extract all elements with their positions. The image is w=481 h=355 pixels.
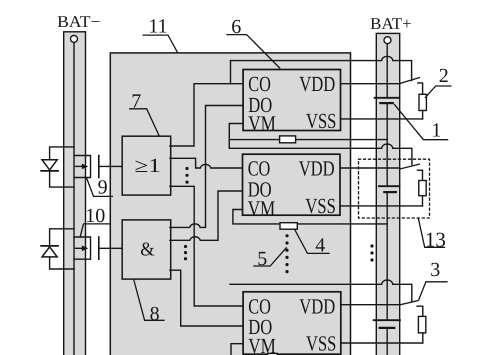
resistor R2 xyxy=(419,181,426,196)
label 3 xyxy=(419,259,447,300)
transistor Q9 gate bar xyxy=(98,156,100,178)
transistor Q9 channel bracket xyxy=(74,156,91,178)
wire CO1 to OR input xyxy=(170,84,243,146)
label 6 xyxy=(227,16,280,68)
transistor Q10 gate bar xyxy=(98,237,100,259)
svg-text:VM: VM xyxy=(248,334,276,355)
wire Q10 gate to box xyxy=(99,247,122,249)
resistor R4b xyxy=(280,223,297,230)
svg-text:1: 1 xyxy=(431,119,441,141)
op-amp U7 OR gate xyxy=(122,136,171,195)
resistor R1 top lead xyxy=(418,83,423,94)
capacitor C2 bottom plate xyxy=(384,191,396,193)
wire VDD1 xyxy=(341,83,400,85)
resistor R1 xyxy=(419,94,426,110)
wire OR stub3 to CO3 xyxy=(170,186,243,306)
svg-text:BAT−: BAT− xyxy=(57,12,100,31)
resistor R3 top lead xyxy=(417,306,423,316)
svg-text:4: 4 xyxy=(315,234,325,256)
BAT+ terminal circle xyxy=(384,37,391,44)
wire VDD3 xyxy=(341,304,400,306)
svg-text:VSS: VSS xyxy=(306,332,336,355)
wire rail2 xyxy=(229,140,412,165)
label 10 xyxy=(80,205,109,236)
svg-text:BAT+: BAT+ xyxy=(370,14,412,33)
transistor Q9 substrate arrow xyxy=(76,164,89,170)
svg-text:VM: VM xyxy=(248,112,276,136)
svg-text:VSS: VSS xyxy=(306,109,336,133)
capacitor C1 bottom plate xyxy=(380,102,392,104)
resistor R4a xyxy=(280,136,296,143)
svg-text:2: 2 xyxy=(439,65,449,87)
BAT- bus bar xyxy=(64,32,86,355)
label 8 xyxy=(134,280,164,326)
label 2 xyxy=(425,65,451,97)
switch blade S3 xyxy=(400,301,418,305)
label 11 xyxy=(143,15,178,52)
transistor Q10 substrate arrow xyxy=(76,246,89,252)
resistor R3 xyxy=(418,316,425,333)
diode D1 xyxy=(41,160,58,171)
BAT+ bus bar xyxy=(376,33,399,355)
switch blade S2 xyxy=(400,164,419,169)
wire rail3 xyxy=(230,280,412,302)
wire VSS3 xyxy=(341,342,423,344)
svg-text:3: 3 xyxy=(430,259,440,281)
diode D2 xyxy=(41,246,58,257)
wire VM3 xyxy=(231,344,243,355)
label 4 xyxy=(295,229,329,256)
wire VSS2 xyxy=(340,205,423,207)
label 7 xyxy=(130,91,159,136)
svg-text:9: 9 xyxy=(98,176,108,198)
transistor Q10 channel bracket xyxy=(74,237,91,259)
svg-text:VSS: VSS xyxy=(305,194,335,218)
resistor R3 bottom lead xyxy=(422,333,424,343)
wire rail1 to BAT+ area xyxy=(231,56,412,80)
svg-text:&: & xyxy=(140,240,154,261)
wire rail1 riser xyxy=(230,61,232,84)
BAT+ center wire cell segments xyxy=(386,44,388,355)
op-amp U8 AND gate xyxy=(122,220,171,279)
svg-text:11: 11 xyxy=(148,15,167,37)
wire VSS1 xyxy=(341,118,423,120)
svg-text:6: 6 xyxy=(231,16,241,38)
wire DO1 to AND input xyxy=(170,106,243,228)
IC U3 xyxy=(243,292,341,354)
svg-text:≥1: ≥1 xyxy=(135,155,161,177)
wire D1 bottom xyxy=(50,171,74,187)
svg-text:8: 8 xyxy=(150,303,160,325)
node ellipsis OR inputs xyxy=(185,167,188,184)
capacitor C1 top plate xyxy=(375,97,399,99)
svg-text:10: 10 xyxy=(85,205,105,227)
resistor R1 bottom lead xyxy=(422,111,424,119)
IC U1 xyxy=(243,70,340,131)
control box 11 xyxy=(110,53,350,355)
label 1 xyxy=(395,105,448,142)
wire DO2 to AND input xyxy=(170,191,243,240)
capacitor C3 top plate xyxy=(374,319,400,321)
BAT- bus wire xyxy=(73,43,75,355)
dashed box 13 xyxy=(359,159,430,218)
svg-text:7: 7 xyxy=(131,91,141,113)
svg-text:VDD: VDD xyxy=(299,72,335,96)
node ellipsis BAT+ bus xyxy=(370,244,373,261)
wire D2 top xyxy=(50,229,74,246)
resistor R2 top lead xyxy=(417,170,422,180)
svg-text:VDD: VDD xyxy=(299,157,335,181)
wire CO2 to OR input xyxy=(170,158,243,168)
svg-text:VM: VM xyxy=(248,196,276,220)
wire VM1 xyxy=(229,124,387,140)
capacitor C2 top plate xyxy=(379,185,400,187)
label 13 xyxy=(418,219,446,252)
label 5 xyxy=(254,248,286,270)
node ellipsis stage gap xyxy=(285,234,288,273)
resistor R2 bottom lead xyxy=(422,196,424,206)
switch blade S1 xyxy=(399,78,420,84)
wire VDD2 xyxy=(340,167,400,169)
resistor R4c xyxy=(268,353,278,355)
svg-text:13: 13 xyxy=(425,227,446,251)
wire D1 top xyxy=(50,147,74,160)
BAT- terminal circle xyxy=(71,35,78,42)
label 9 xyxy=(87,176,113,198)
svg-text:5: 5 xyxy=(257,248,267,270)
node ellipsis AND inputs xyxy=(184,245,187,260)
wire Q9 gate to box xyxy=(99,165,122,167)
wire VM2 xyxy=(233,210,387,224)
wire D2 bottom xyxy=(50,257,74,269)
capacitor C3 bottom plate xyxy=(380,327,395,329)
IC U2 xyxy=(243,154,341,215)
wire AND stubC to DO3 xyxy=(170,270,243,326)
svg-text:VDD: VDD xyxy=(299,294,335,318)
